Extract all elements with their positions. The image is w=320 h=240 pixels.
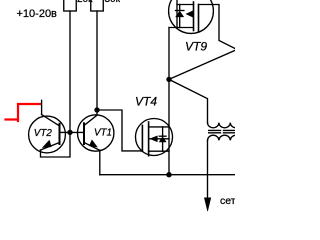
wire R1 to base node (69, 11, 71, 132)
transistor VT4 (MOSFET) (136, 119, 173, 156)
resistor R1 (64, 0, 77, 11)
transistor VT9 (MOSFET) (169, 0, 214, 33)
wire mains lead (207, 140, 209, 197)
svg-text:сет: сет (220, 195, 235, 207)
node source VT4 bottom rail (166, 172, 171, 177)
wire VT9 gate (169, 5, 237, 80)
transformer core (209, 130, 235, 132)
svg-text:VT9: VT9 (185, 39, 207, 53)
wire node A to transformer (169, 79, 208, 122)
svg-text:30к: 30к (105, 0, 121, 5)
wire VT1 collector to VT4 gate (97, 110, 142, 151)
pulse input (red step waveform) (6, 104, 41, 121)
node VT1 collector (94, 107, 99, 112)
node base junction (67, 130, 72, 135)
svg-text:+10-20в: +10-20в (17, 8, 58, 20)
wire drain-source lead line VT9 to VT4 to bottom rail (168, 28, 170, 175)
node A (166, 77, 171, 82)
bottom rail wire (100, 174, 235, 176)
svg-text:VT1: VT1 (94, 128, 112, 139)
wire VT1 emitter to bottom rail (99, 150, 101, 174)
wire VT2 emitter loop (41, 132, 71, 157)
wire R2 to VT1 collector node (96, 11, 98, 110)
transformer winding bottom (208, 135, 242, 140)
resistor R2 (91, 0, 104, 11)
transistor VT2 (29, 100, 66, 153)
transistor VT1 (78, 110, 114, 151)
arrow to mains (204, 198, 210, 211)
svg-text:VT4: VT4 (135, 95, 157, 109)
svg-text:VT2: VT2 (34, 128, 53, 139)
wire base VT2-VT1 (60, 131, 85, 133)
transformer primary winding top (208, 123, 242, 128)
